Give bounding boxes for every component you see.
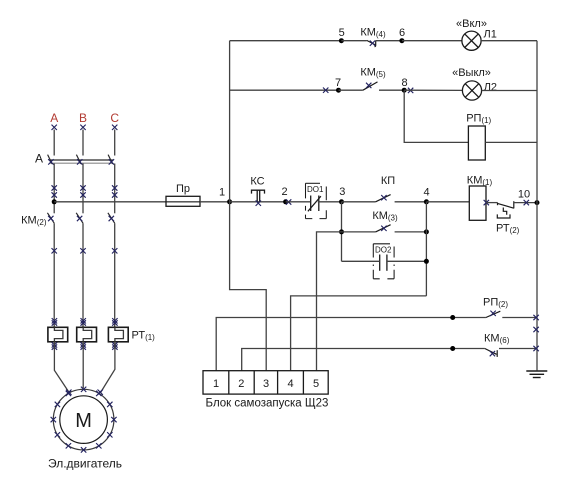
contactor KM(2) 3-pole contacts <box>47 213 114 223</box>
svg-text:4: 4 <box>423 186 429 198</box>
wire right vertical <box>536 41 538 371</box>
svg-text:3: 3 <box>263 378 269 390</box>
wire to terminal 4 <box>291 296 427 371</box>
node 7 <box>336 88 341 93</box>
wire lamp L1 to right vertical <box>481 40 537 42</box>
wire DO2 right lead <box>387 260 427 262</box>
wire KM(6) row left + terminal 2 drop <box>242 349 485 371</box>
contact KM(4) <box>341 40 402 46</box>
wire phase A drop to breaker <box>52 125 57 156</box>
svg-text:Пр: Пр <box>176 183 190 195</box>
wire lamp L2 to right vertical <box>482 90 537 92</box>
wire phase C KM(2) to RT(1) <box>112 223 118 327</box>
switch KC <box>252 190 265 202</box>
wire node4 vertical down <box>425 202 427 296</box>
svg-text:A: A <box>35 152 43 166</box>
svg-text:2: 2 <box>238 378 244 390</box>
svg-text:5: 5 <box>339 27 345 39</box>
node 3 <box>339 199 344 204</box>
wire phase A RT(1) to motor <box>52 342 72 395</box>
wire fuse to node 1 <box>200 201 230 203</box>
wire node3 vertical down <box>341 202 343 261</box>
svg-text:«Вкл»: «Вкл» <box>456 18 487 30</box>
wire phase C breaker to KM(2) <box>112 164 117 214</box>
svg-text:7: 7 <box>335 77 341 89</box>
contact DO1 (NC, dashed box) <box>306 183 327 218</box>
svg-text:Л1: Л1 <box>484 29 497 41</box>
svg-text:КС: КС <box>250 176 264 188</box>
svg-text:5: 5 <box>313 378 319 390</box>
thermal overload RT(1) heater, phase B <box>77 327 97 342</box>
svg-text:8: 8 <box>401 77 407 89</box>
contact KM(5) <box>339 82 405 90</box>
contact KM(6) <box>485 349 537 357</box>
terminal block Shch23 <box>203 371 328 394</box>
svg-text:10: 10 <box>518 189 530 201</box>
wire phase B RT(1) to motor <box>81 342 86 389</box>
contact KM(3) <box>342 225 427 232</box>
svg-text:DO2: DO2 <box>375 245 392 254</box>
svg-text:C: C <box>110 111 119 125</box>
svg-text:КП: КП <box>381 175 395 187</box>
contact RP(2) <box>486 311 537 317</box>
svg-text:4: 4 <box>287 378 293 390</box>
node 4 <box>424 199 429 204</box>
node DO2 right junction <box>424 259 429 264</box>
node 1 <box>227 199 232 204</box>
wire row2 left <box>230 88 339 93</box>
coil KM(1) <box>467 175 493 221</box>
wire phase B KM(2) to RT(1) <box>80 223 86 327</box>
wire RP(2) row left + terminal 1 drop <box>216 318 486 371</box>
wire to terminal 5 <box>317 232 342 371</box>
node 5 <box>339 38 344 43</box>
node 6 <box>399 38 404 43</box>
svg-text:«Выкл»: «Выкл» <box>452 67 491 79</box>
wire node8 down to RP(1) <box>404 90 468 142</box>
coil RP(1) <box>466 113 491 161</box>
svg-text:3: 3 <box>339 186 345 198</box>
wire phase C RT(1) to motor <box>98 342 118 395</box>
contact DO2 (NO, dashed box) <box>373 244 394 279</box>
svg-text:DO1: DO1 <box>307 185 324 194</box>
node 10 <box>524 200 529 205</box>
svg-text:Л2: Л2 <box>484 81 497 93</box>
thermal overload RT(1) heater, phase C <box>108 327 128 342</box>
node 8 <box>402 88 407 93</box>
svg-text:М: М <box>75 410 92 432</box>
node KM3 left junction <box>339 229 344 234</box>
svg-text:1: 1 <box>219 187 225 199</box>
wire phase B breaker to KM(2) <box>80 164 85 214</box>
junction dot KM(6) row <box>450 346 455 351</box>
svg-text:1: 1 <box>213 378 219 390</box>
svg-text:B: B <box>79 111 87 125</box>
fuse Pr <box>166 183 200 206</box>
wire node6 to lamp L1 <box>402 40 462 42</box>
circuit breaker A (3-pole, linkage bar) <box>48 155 114 164</box>
wire node 1 to node 2 <box>230 201 286 203</box>
wire RP(1) to right vertical <box>485 141 537 143</box>
wire row1 left <box>230 40 342 42</box>
contact KP <box>342 195 427 202</box>
node A junction dot (control tap) <box>52 199 57 204</box>
node 2 <box>283 199 288 204</box>
lamp L1 <box>462 31 481 50</box>
node KM3 right junction <box>424 229 429 234</box>
ground <box>526 371 547 378</box>
svg-text:6: 6 <box>399 27 405 39</box>
thermal overload RT(1) heater, phase A <box>48 327 68 342</box>
wire phase B drop to breaker <box>80 125 85 156</box>
lamp L2 <box>462 81 481 100</box>
wire phase C drop to breaker <box>112 125 117 156</box>
junction dot RP(2) row <box>450 315 455 320</box>
svg-text:A: A <box>50 111 58 125</box>
svg-text:2: 2 <box>281 186 287 198</box>
motor M (el. dvigatel) <box>53 389 114 450</box>
wire left control vertical <box>230 41 267 371</box>
wire DO2 left lead <box>342 260 380 262</box>
svg-text:Эл.двигатель: Эл.двигатель <box>48 457 122 471</box>
wire node8 to lamp L2 <box>404 89 462 91</box>
wire phase A KM(2) to RT(1) <box>52 223 58 327</box>
svg-text:Блок самозапуска Щ23: Блок самозапуска Щ23 <box>206 397 329 409</box>
contact RT(2) thermal <box>486 201 537 218</box>
wire node 4 to KM(1) coil <box>426 201 469 203</box>
wire main row A to fuse <box>54 201 166 203</box>
wire phase A breaker to KM(2) <box>52 164 57 214</box>
